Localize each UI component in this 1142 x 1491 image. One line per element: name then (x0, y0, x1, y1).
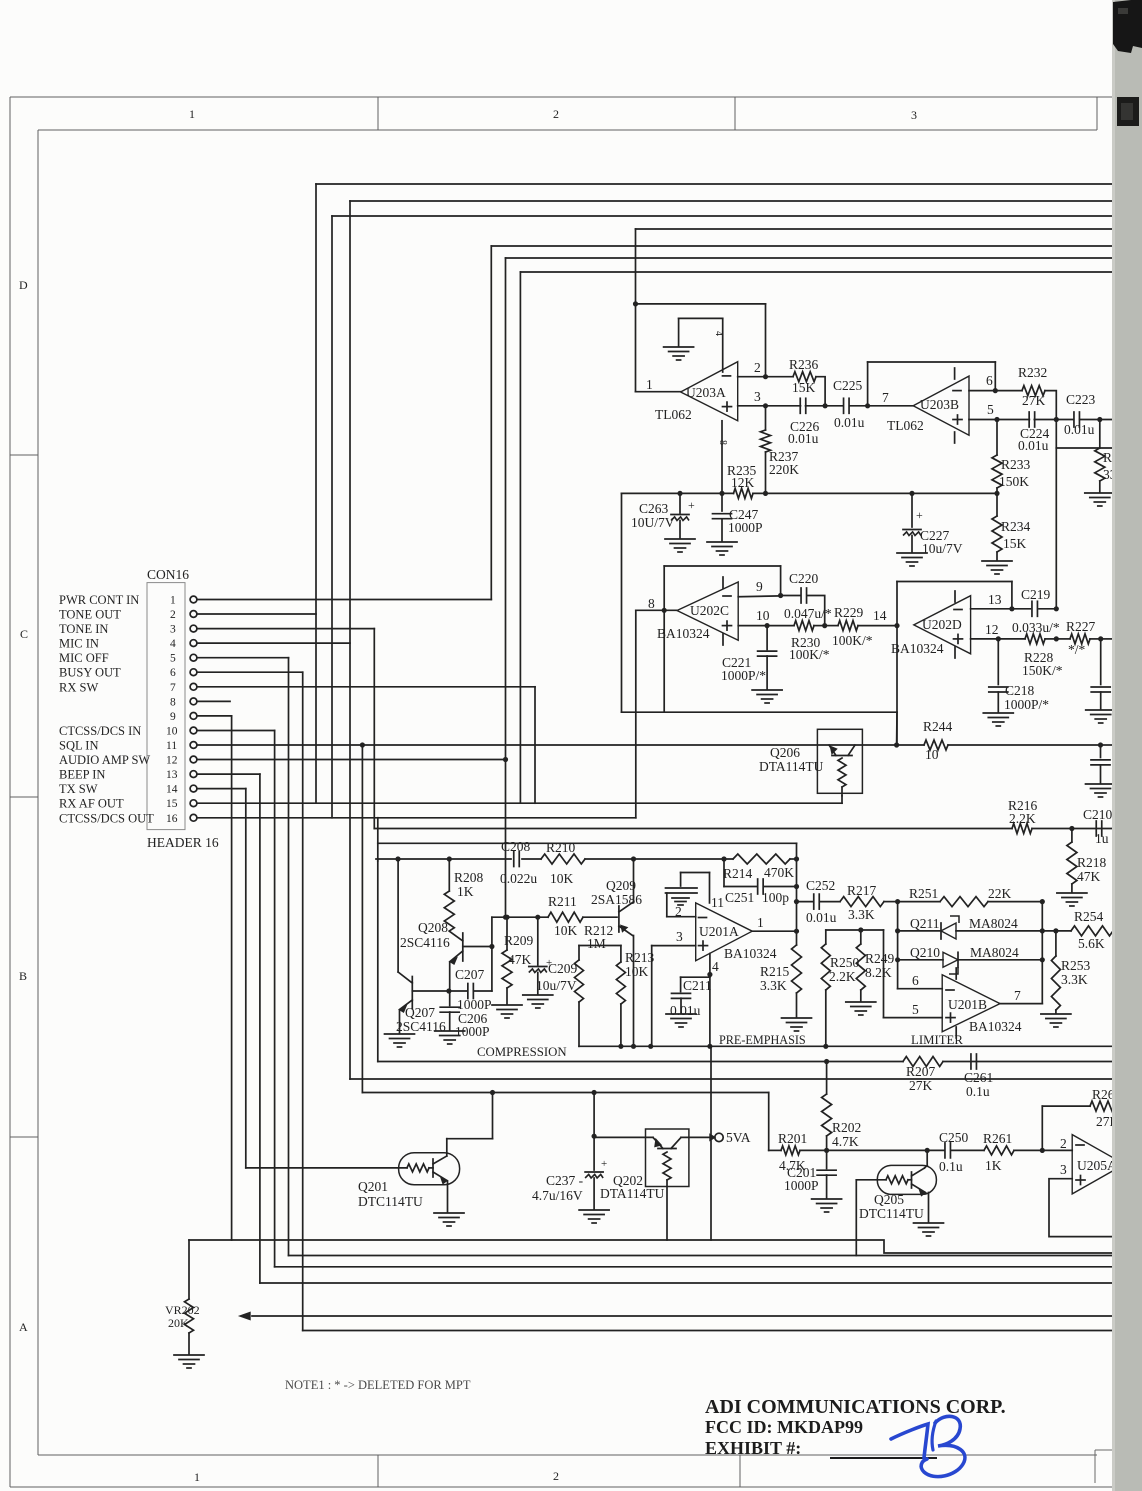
wire U202C pin10 (738, 625, 767, 627)
wire row y1079 (350, 1078, 1114, 1080)
svg-text:3: 3 (1060, 1162, 1067, 1177)
wire R211 row y917.2 (492, 916, 548, 918)
svg-text:6: 6 (912, 973, 919, 988)
svg-text:U203A: U203A (686, 385, 726, 400)
transistor Q201 DTC114TU (399, 1153, 460, 1185)
resistor R218 47K (1071, 829, 1073, 843)
svg-text:U201A: U201A (699, 924, 739, 939)
transistor Q202 DTA114TU (646, 1129, 689, 1187)
svg-text:12: 12 (166, 755, 178, 767)
svg-text:7: 7 (1014, 988, 1021, 1003)
wire U201B pin5 (884, 1017, 943, 1019)
svg-text:BA10324: BA10324 (657, 626, 710, 641)
svg-text:3: 3 (754, 389, 761, 404)
wire limiter left loop (826, 929, 884, 931)
ground (492, 1004, 522, 1006)
wire U203A pin2 (738, 376, 766, 378)
diode Q211 MA8024 (898, 930, 941, 932)
resistor R211 10K (548, 912, 583, 922)
svg-text:9: 9 (170, 711, 176, 723)
svg-text:C223: C223 (1066, 392, 1096, 407)
svg-text:R213: R213 (625, 950, 655, 965)
svg-text:27K: 27K (1022, 393, 1046, 408)
svg-text:+: + (688, 498, 695, 512)
svg-text:U203B: U203B (920, 397, 959, 412)
wire R244 row (894, 742, 899, 747)
svg-text:B: B (19, 969, 27, 983)
svg-text:R207: R207 (906, 1064, 936, 1079)
ground (523, 994, 553, 996)
wire SQL IN row y745 (197, 744, 897, 746)
svg-text:2: 2 (170, 609, 176, 621)
svg-text:Q206: Q206 (770, 745, 800, 760)
wire U203B pin6 (969, 390, 995, 392)
svg-text:R261: R261 (983, 1131, 1012, 1146)
capacitor C206 1000P (449, 991, 451, 1006)
wire limiter column (897, 902, 899, 989)
svg-text:R214: R214 (723, 866, 753, 881)
svg-text:2: 2 (1060, 1136, 1067, 1151)
svg-text:R208: R208 (454, 870, 484, 885)
svg-text:0.033u/*: 0.033u/* (1012, 620, 1060, 635)
resistor R213 10K (620, 946, 622, 963)
svg-text:0.01u: 0.01u (1064, 422, 1095, 437)
capacitor C224 0.01u (997, 419, 1029, 421)
svg-text:1: 1 (194, 1470, 200, 1484)
resistor R227 (1056, 638, 1070, 640)
wire pin6 BUSY OUT (197, 671, 303, 673)
resistor R235 12K (734, 488, 754, 498)
capacitor right edge partial 2 (1100, 745, 1102, 758)
resistor R210 10K (541, 854, 585, 864)
resistor R233 150K (996, 420, 998, 456)
ground (897, 552, 927, 554)
svg-text:100p: 100p (762, 890, 789, 905)
capacitor C252 0.01u (797, 901, 814, 903)
wire bottom A y1240 (189, 1240, 1114, 1253)
capacitor C227 10u/7V electrolytic (909, 491, 914, 496)
capacitor C209 10u/7V electrolytic (537, 917, 539, 965)
svg-text:VR202: VR202 (165, 1303, 200, 1317)
svg-text:BA10324: BA10324 (969, 1019, 1022, 1034)
svg-text:0.01u: 0.01u (670, 1003, 701, 1018)
svg-text:1: 1 (757, 915, 764, 930)
svg-text:1: 1 (646, 377, 653, 392)
wire U202D pin12 (971, 638, 999, 640)
transistor Q209 2SA1586 (618, 906, 620, 932)
svg-text:R227: R227 (1066, 619, 1096, 634)
capacitor C201 1000P (826, 1150, 828, 1168)
ground (434, 1212, 464, 1214)
svg-text:TX SW: TX SW (59, 782, 98, 796)
svg-text:BA10324: BA10324 (724, 946, 777, 961)
svg-text:8: 8 (170, 696, 176, 708)
wire pin3 TONE IN (197, 628, 374, 630)
svg-text:5VA: 5VA (726, 1130, 751, 1145)
resistor R217 3.3K (840, 897, 884, 907)
wire VR202 wiper row (252, 1315, 1114, 1317)
svg-text:2SA1586: 2SA1586 (591, 892, 642, 907)
svg-text:NOTE1 : * -> DELETED FOR MPT: NOTE1 : * -> DELETED FOR MPT (285, 1378, 471, 1392)
wire bus net7 y272 (520, 271, 1114, 273)
svg-text:MIC IN: MIC IN (59, 637, 99, 651)
transistor Q208 2SC4116 (462, 933, 464, 961)
svg-text:8.2K: 8.2K (865, 965, 892, 980)
capacitor C250 0.1u (927, 1149, 944, 1151)
svg-text:100K/*: 100K/* (789, 647, 830, 662)
svg-text:1000P: 1000P (457, 997, 492, 1012)
svg-text:16: 16 (166, 813, 178, 825)
svg-text:LIMITER: LIMITER (911, 1033, 963, 1047)
svg-text:27K: 27K (909, 1078, 933, 1093)
wire U205A pin3 loop (1049, 1179, 1114, 1237)
svg-text:2: 2 (553, 1469, 559, 1483)
svg-text:C207: C207 (455, 967, 485, 982)
wire bottom B y1255.5 (289, 1255, 1115, 1257)
svg-text:PRE-EMPHASIS: PRE-EMPHASIS (719, 1033, 806, 1047)
svg-text:R211: R211 (548, 894, 577, 909)
svg-text:4: 4 (713, 331, 724, 336)
svg-text:11: 11 (166, 740, 177, 752)
wire bypass y843.3 (378, 842, 797, 844)
op-amp U202C (677, 582, 738, 640)
svg-text:3.3K: 3.3K (848, 907, 875, 922)
wire U202D pin13 (971, 608, 1012, 610)
capacitor C218 1000P (997, 639, 999, 685)
svg-text:C237 -: C237 - (546, 1173, 584, 1188)
svg-text:10U/7V: 10U/7V (631, 515, 675, 530)
handwritten exhibit number 7B blue (891, 1424, 928, 1458)
resistor R214 470K (733, 854, 790, 864)
svg-text:4.7u/16V: 4.7u/16V (532, 1188, 583, 1203)
wire Q206 node up (896, 712, 898, 745)
svg-text:PWR CONT IN: PWR CONT IN (59, 593, 139, 607)
wire pin4 MIC IN (197, 642, 350, 644)
svg-text:R232: R232 (1018, 365, 1047, 380)
U202D feedback loop (897, 581, 1012, 583)
svg-text:U201B: U201B (948, 997, 987, 1012)
ground (579, 1209, 609, 1211)
svg-text:D: D (19, 278, 28, 292)
svg-text:DTC114TU: DTC114TU (859, 1206, 924, 1221)
wire pin7 RX SW (197, 686, 535, 688)
op-amp U201B (942, 975, 1000, 1032)
capacitor C263 10U/7V electrolytic (677, 491, 682, 496)
svg-text:R244: R244 (923, 719, 953, 734)
svg-text:BA10324: BA10324 (891, 641, 944, 656)
svg-text:1000P/*: 1000P/* (721, 668, 766, 683)
svg-text:470K: 470K (764, 865, 794, 880)
svg-text:MA8024: MA8024 (969, 916, 1018, 931)
svg-text:U202D: U202D (922, 617, 962, 632)
svg-text:RX AF OUT: RX AF OUT (59, 797, 124, 811)
wire R254 row (1042, 930, 1071, 932)
svg-text:R26: R26 (1092, 1087, 1115, 1102)
wire U201A pin4 (709, 954, 711, 1047)
svg-text:CTCSS/DCS OUT: CTCSS/DCS OUT (59, 811, 154, 825)
wire bottom C y1266.8 (275, 1266, 1114, 1268)
svg-text:5: 5 (987, 402, 994, 417)
svg-text:C252: C252 (806, 878, 835, 893)
resistor R215 3.3K (796, 931, 798, 945)
wire pin15 RX AF OUT row (197, 802, 842, 804)
svg-text:R251: R251 (909, 886, 938, 901)
wire compression row y859 (376, 858, 511, 860)
svg-text:3: 3 (170, 624, 176, 636)
wire bottom F y1330.5 (303, 1330, 1114, 1332)
svg-text:MA8024: MA8024 (970, 945, 1019, 960)
power pin 11 (709, 873, 711, 903)
svg-text:1: 1 (189, 107, 195, 121)
svg-text:6: 6 (986, 373, 993, 388)
svg-text:BEEP IN: BEEP IN (59, 768, 105, 782)
scan artifact black corner top right (1113, 0, 1142, 53)
resistor R208 1K (448, 859, 450, 891)
wire limiter rail y1046.3 (579, 1045, 1114, 1047)
op-amp U201A (696, 903, 753, 961)
svg-text:R253: R253 (1061, 958, 1091, 973)
wire Q201 collector (446, 1139, 448, 1156)
svg-text:1u: 1u (1095, 831, 1109, 846)
capacitor C211 0.01u (681, 976, 710, 978)
scan artifact black square right (1117, 97, 1139, 126)
svg-text:3.3K: 3.3K (1061, 972, 1088, 987)
svg-text:7: 7 (882, 390, 889, 405)
resistor R253 3.3K (1055, 931, 1057, 956)
resistor R236 15K (766, 376, 794, 378)
capacitor C251 100p (723, 859, 725, 887)
wire pin2 TONE OUT (197, 613, 316, 615)
capacitor C261 0.1u (970, 1054, 972, 1069)
ground (174, 1354, 204, 1356)
ground (982, 560, 1012, 562)
svg-text:+: + (601, 1158, 607, 1170)
ground (1086, 709, 1116, 711)
transistor Q206 DTA114TU (817, 729, 862, 793)
resistor R216 2.2K (1012, 824, 1032, 834)
svg-text:2.2K: 2.2K (1009, 811, 1036, 826)
ground (666, 1013, 696, 1015)
wire U201A output pin1 (752, 930, 796, 932)
ground (812, 1198, 842, 1200)
ground cap at U201A pin2 (681, 872, 710, 874)
svg-text:A: A (19, 1320, 28, 1334)
svg-text:10K: 10K (554, 923, 578, 938)
svg-text:AUDIO AMP SW: AUDIO AMP SW (59, 753, 150, 767)
svg-text:R209: R209 (504, 933, 534, 948)
capacitor C225 0.01u (825, 405, 843, 407)
capacitor C208 0.022u (513, 852, 515, 867)
wire to U203B pin7 (868, 405, 914, 407)
ground (435, 1030, 465, 1032)
ground (707, 541, 737, 543)
svg-text:Q205: Q205 (874, 1192, 904, 1207)
svg-text:C: C (20, 627, 28, 641)
svg-text:C220: C220 (789, 571, 819, 586)
capacitor right edge partial (1100, 639, 1102, 685)
svg-text:10u/7V: 10u/7V (536, 978, 577, 993)
ground (983, 712, 1013, 714)
resistor R229 100K (825, 625, 838, 627)
border column ticks bottom (377, 1455, 379, 1487)
svg-text:0.047u/*: 0.047u/* (784, 606, 832, 621)
svg-text:C219: C219 (1021, 587, 1051, 602)
svg-text:10: 10 (166, 726, 178, 738)
svg-text:0.01u: 0.01u (788, 431, 819, 446)
svg-text:R250: R250 (830, 955, 860, 970)
svg-text:3: 3 (911, 108, 917, 122)
svg-text:14: 14 (873, 608, 887, 623)
svg-text:5.6K: 5.6K (1078, 936, 1105, 951)
wire pin13 BEEP IN (197, 773, 260, 775)
svg-text:Q211: Q211 (910, 916, 940, 931)
wire pin9 drop (197, 715, 232, 717)
svg-text:2: 2 (754, 360, 761, 375)
ground stub above U203A pin4 (679, 317, 723, 319)
svg-text:2: 2 (553, 107, 559, 121)
capacitor C207 1000P (449, 990, 468, 992)
wire right edge y448 (1055, 420, 1057, 449)
resistor R234 15K (996, 493, 998, 516)
wire bus net6 y258 (506, 257, 1115, 259)
potentiometer VR202 20K (188, 1240, 190, 1299)
op-amp U203A (681, 362, 738, 421)
svg-text:CTCSS/DCS IN: CTCSS/DCS IN (59, 724, 141, 738)
transistor Q205 DTC114TU (877, 1165, 936, 1194)
svg-text:CON16: CON16 (147, 567, 189, 582)
resistor R261 1K (984, 1146, 1014, 1155)
svg-text:C211: C211 (683, 978, 712, 993)
svg-text:100K/*: 100K/* (832, 633, 873, 648)
svg-text:C208: C208 (501, 839, 531, 854)
wire pin10 CTCSS/DCS IN (197, 730, 275, 732)
svg-text:R254: R254 (1074, 909, 1104, 924)
capacitor C220 0.047u (781, 595, 801, 597)
svg-text:2SC4116: 2SC4116 (400, 935, 450, 950)
resistor R201 4.7K (769, 1149, 781, 1151)
svg-text:8: 8 (717, 440, 728, 445)
svg-text:10K: 10K (625, 964, 649, 979)
svg-text:10: 10 (925, 747, 939, 762)
U203B feedback loop (867, 362, 869, 406)
wire pin12 AUDIO AMP SW (197, 759, 506, 761)
ground (1057, 892, 1087, 894)
wire U201A pin2 row (667, 916, 696, 918)
svg-text:R236: R236 (789, 357, 819, 372)
capacitor C210 1u (1095, 821, 1097, 836)
svg-text:R233: R233 (1001, 457, 1031, 472)
wire R201 row to Q205 (827, 1149, 928, 1151)
wire pin14 TX SW (197, 788, 246, 790)
svg-text:R249: R249 (865, 951, 895, 966)
svg-text:COMPRESSION: COMPRESSION (477, 1045, 567, 1059)
ground (665, 538, 695, 540)
resistor R231 33K partial (1099, 420, 1101, 449)
wire bottom D y1283 (260, 1282, 1114, 1284)
resistor R228 150K (998, 638, 1025, 640)
resistor R207 27K (903, 1057, 943, 1067)
svg-text:15K: 15K (1003, 536, 1027, 551)
svg-text:R217: R217 (847, 883, 877, 898)
svg-text:FCC ID: MKDAP99: FCC ID: MKDAP99 (705, 1417, 863, 1437)
wire bus net1 y184 (316, 183, 1114, 185)
svg-text:150K: 150K (999, 474, 1029, 489)
resistor R251 22K (898, 901, 940, 903)
svg-text:1000P: 1000P (784, 1178, 819, 1193)
capacitor C221 1000P (766, 626, 768, 650)
svg-text:4.7K: 4.7K (832, 1134, 859, 1149)
svg-text:R201: R201 (778, 1131, 807, 1146)
wire U201B output pin7 (1000, 1003, 1042, 1005)
border title block corner (1095, 1450, 1125, 1483)
svg-text:9: 9 (756, 579, 763, 594)
svg-text:47K: 47K (1077, 869, 1101, 884)
wire Q205 base drop (855, 1180, 857, 1256)
svg-text:4: 4 (712, 959, 719, 974)
wire bus net5 y246 (491, 245, 1114, 247)
border column ticks top (377, 97, 379, 130)
svg-text:TL062: TL062 (887, 418, 924, 433)
wire U202C pin9 (738, 595, 780, 598)
wire long row y828.5 (374, 828, 1012, 830)
svg-text:C263: C263 (639, 501, 669, 516)
wire U201A pin3 row (652, 945, 696, 947)
svg-text:C261: C261 (964, 1070, 993, 1085)
svg-text:0.01u: 0.01u (1018, 438, 1049, 453)
wire row y1092.5 (362, 1092, 768, 1094)
wire 5VA column (710, 1046, 712, 1240)
resistor R202 4.7K (826, 1062, 828, 1095)
wire supply rail y493 (622, 492, 734, 494)
wire Q206 resistor to RX AF OUT row (841, 796, 843, 803)
wire diode right column (1041, 902, 1043, 1004)
ground (846, 1001, 876, 1003)
node U203A output loop (633, 301, 638, 306)
svg-text:Q209: Q209 (606, 878, 636, 893)
svg-text:20K: 20K (168, 1316, 189, 1330)
resistor R237 220K (765, 406, 767, 430)
svg-text:RX SW: RX SW (59, 680, 98, 694)
svg-text:0.022u: 0.022u (500, 871, 537, 886)
svg-text:2.2K: 2.2K (829, 969, 856, 984)
svg-text:R210: R210 (546, 840, 576, 855)
svg-text:10: 10 (756, 608, 770, 623)
svg-text:C251: C251 (725, 890, 754, 905)
scanner gray margin strip (1114, 0, 1142, 1491)
svg-text:0.01u: 0.01u (806, 910, 837, 925)
transistor Q207 2SC4116 (411, 977, 413, 1009)
svg-text:13: 13 (166, 769, 178, 781)
wire pin5 MIC OFF (197, 657, 289, 659)
capacitor C226 0.01u (766, 405, 801, 407)
resistor R232 27K (995, 390, 1022, 392)
wire mid rail y712 (622, 711, 898, 713)
svg-text:0.01u: 0.01u (834, 415, 865, 430)
ground (782, 1017, 812, 1019)
svg-text:ADI COMMUNICATIONS CORP.: ADI COMMUNICATIONS CORP. (705, 1396, 1006, 1418)
svg-text:12: 12 (985, 622, 999, 637)
svg-text:MIC OFF: MIC OFF (59, 651, 109, 665)
wire U203A output pin 1 (636, 391, 681, 393)
svg-text:+: + (916, 508, 923, 522)
svg-text:1M: 1M (587, 936, 606, 951)
svg-text:U202C: U202C (690, 603, 729, 618)
svg-text:R202: R202 (832, 1120, 861, 1135)
svg-text:*/*: */* (1068, 642, 1086, 657)
svg-text:1000P: 1000P (728, 520, 763, 535)
op-amp U202D (914, 596, 971, 654)
svg-text:HEADER 16: HEADER 16 (147, 835, 219, 850)
